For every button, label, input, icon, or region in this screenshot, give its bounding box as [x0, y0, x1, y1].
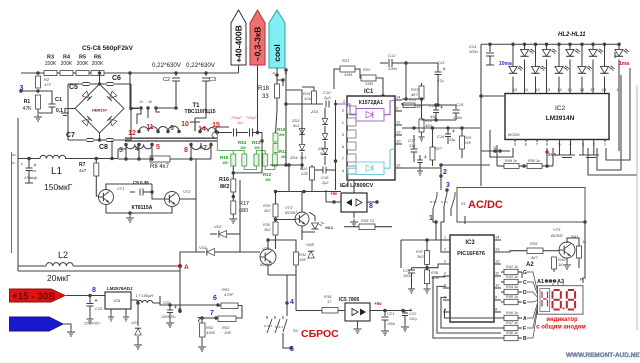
IC2 pin 12 [535, 87, 540, 92]
svg-text:C17: C17 [408, 138, 416, 143]
svg-text:C21: C21 [387, 311, 394, 316]
svg-text:R3: R3 [47, 55, 54, 61]
label 0,22*630V b [186, 62, 216, 69]
resistor R19 body [312, 91, 317, 104]
node bus-right [128, 71, 132, 75]
wire C14C15 top [402, 103, 456, 107]
svg-text:12: 12 [535, 87, 540, 92]
IC3 pin 2 [443, 248, 450, 253]
node 3 terminal [19, 85, 23, 93]
optocoupler diode purple [356, 109, 384, 122]
svg-text:2: 2 [444, 248, 446, 252]
label R14 green [238, 140, 247, 150]
capacitor C29 [417, 155, 427, 175]
wire mid-low rail [239, 180, 241, 234]
node J6 [277, 71, 288, 86]
svg-text:C1: C1 [55, 97, 62, 103]
wire bridge right [131, 108, 139, 110]
wire zeners [302, 108, 325, 170]
resistor R46 [501, 311, 527, 322]
LED HL2 [509, 43, 524, 94]
arrow +40-400V [231, 10, 246, 65]
svg-text:2М: 2М [279, 132, 285, 137]
svg-text:R50 1к: R50 1к [528, 159, 540, 163]
svg-text:10Су: 10Су [409, 317, 417, 321]
svg-text:HL1: HL1 [325, 225, 332, 230]
svg-text:ВС847: ВС847 [551, 233, 564, 238]
svg-text:/5: /5 [492, 146, 496, 150]
svg-text:R38: R38 [431, 271, 439, 275]
resistor R4 [60, 55, 73, 76]
wire bridge left input [65, 109, 75, 114]
ground blue arrow [63, 324, 75, 336]
ground IC2 a [555, 142, 575, 158]
wire ic1 bottom to hl1 [325, 190, 332, 230]
zener label ZD3 [317, 146, 326, 156]
svg-text:R44 1к: R44 1к [506, 285, 518, 289]
svg-text:R27: R27 [435, 147, 443, 151]
svg-text:1: 1 [429, 215, 433, 222]
svg-text:cool: cool [272, 44, 282, 61]
svg-text:12: 12 [396, 163, 401, 168]
svg-text:A2: A2 [526, 262, 534, 268]
svg-text:15: 15 [567, 87, 572, 92]
wire R28 [344, 218, 392, 230]
node 4 blue [285, 299, 294, 306]
svg-text:100n: 100n [453, 115, 463, 120]
svg-text:C12: C12 [388, 53, 396, 58]
label IC5 7805 [339, 297, 360, 303]
svg-text:R45 1к: R45 1к [506, 295, 518, 299]
ground R1C1 [34, 114, 42, 121]
wire bridge bottom [99, 133, 101, 140]
node 7 blue a [210, 310, 218, 320]
label IC4 [340, 183, 374, 189]
wire 9v rail [274, 190, 341, 196]
diode VD1 [196, 245, 228, 256]
capacitor C15 [453, 102, 465, 120]
svg-text:20мкГ: 20мкГ [47, 273, 71, 283]
zener stack right b [322, 134, 328, 140]
wire S1b to pin2 [441, 206, 446, 252]
svg-text:200K: 200K [61, 61, 73, 67]
svg-text:ТВС110ПЦ15: ТВС110ПЦ15 [185, 109, 216, 115]
svg-text:IC3: IC3 [465, 240, 475, 246]
IC1 pin 1 [342, 118, 356, 126]
svg-text:IC5 7805: IC5 7805 [339, 297, 360, 303]
capacitor C20 [161, 300, 177, 327]
resistor R21 [340, 58, 355, 77]
svg-text:47Y: 47Y [44, 82, 51, 87]
svg-text:4К7: 4К7 [411, 92, 419, 97]
wire S1 down [433, 209, 451, 222]
wire L1 top [18, 157, 40, 161]
ac input gnd stub [61, 113, 69, 116]
svg-text:100n: 100n [387, 322, 395, 326]
resistor R27 [430, 128, 443, 166]
node 7 blue b [197, 316, 204, 324]
svg-text:+5v: +5v [374, 301, 382, 306]
label 2V5 [545, 150, 556, 157]
pin 3 [119, 143, 128, 154]
svg-text:G: G [523, 270, 527, 276]
wire VT4-S area [287, 270, 296, 275]
svg-text:IC6: IC6 [114, 298, 121, 303]
IC1 pin 3 [342, 130, 356, 138]
pin 5 [150, 143, 160, 151]
node 5 blue [283, 333, 294, 353]
winding 14-15 [200, 128, 216, 132]
svg-text:+15 - 30В: +15 - 30В [12, 292, 55, 303]
svg-text:4: 4 [290, 299, 294, 306]
wire right rail a [618, 94, 620, 152]
svg-text:VD8: VD8 [306, 242, 315, 247]
label T1 [192, 103, 200, 109]
svg-text:R22: R22 [363, 67, 371, 72]
switch S2 [264, 316, 299, 333]
svg-text:33: 33 [262, 94, 269, 100]
top bus wire [481, 43, 619, 45]
svg-text:VD1: VD1 [199, 245, 207, 250]
svg-text:ZD4: ZD4 [289, 155, 298, 160]
label IC1 pin2 [343, 99, 346, 104]
svg-text:R1: R1 [24, 99, 31, 105]
wire display anode [583, 220, 587, 283]
resistor R10 green [273, 127, 286, 142]
bus routing stairs [433, 277, 501, 338]
wire R7-VT1 [96, 159, 98, 197]
ladder resistor c [254, 154, 259, 166]
resistor R52 [198, 318, 216, 351]
svg-text:A1: A1 [537, 279, 544, 285]
node R1 top [36, 89, 40, 93]
label 0,22*630V a [152, 62, 182, 69]
LED HL3 [520, 43, 535, 94]
svg-text:2μ2: 2μ2 [323, 95, 331, 100]
zener ZD1 [310, 109, 319, 114]
svg-text:2кV: 2кV [236, 121, 244, 125]
label ACDC [468, 199, 503, 211]
wire bus to C2C3 [170, 72, 230, 74]
ground R17 [229, 214, 237, 223]
svg-text:IC1: IC1 [364, 89, 374, 95]
svg-text:200K: 200K [92, 61, 104, 67]
resistor R38 [412, 264, 447, 293]
label A1 A3 [537, 279, 564, 285]
LED HL10 [600, 43, 615, 94]
capacitor C7 [66, 132, 94, 142]
node 3 blue [445, 182, 450, 192]
wire VT3 sect down [276, 232, 303, 249]
svg-text:J1: J1 [272, 71, 276, 75]
svg-text:10: 10 [396, 139, 401, 144]
svg-text:17: 17 [590, 87, 595, 92]
LED HL6 [555, 43, 570, 94]
resistor R45 [501, 295, 527, 306]
svg-text:СБРОС: СБРОС [301, 328, 339, 340]
svg-text:AC/DC: AC/DC [468, 199, 503, 211]
arrow gnd blue [10, 317, 64, 331]
cap square rim bottom [68, 138, 131, 142]
svg-text:R42 1к: R42 1к [506, 265, 518, 269]
resistor R17 [231, 192, 249, 214]
resistor R43 [501, 275, 527, 286]
svg-text:D: D [523, 290, 527, 296]
wire to S2 [268, 275, 287, 316]
wire mid column [284, 68, 323, 165]
label K1572DA1 [359, 100, 383, 106]
svg-text:6: 6 [213, 295, 217, 302]
svg-text:5v1: 5v1 [320, 151, 326, 156]
IC3 pin 11 [494, 271, 501, 277]
IC2 bpin 5 [558, 140, 561, 147]
ground IC4 [350, 212, 358, 226]
wire +15 in [66, 294, 105, 298]
seg bus collect [521, 272, 523, 278]
svg-text:12: 12 [128, 130, 136, 137]
IC2 bpin 2 [593, 140, 596, 147]
wire y128 rail [402, 126, 480, 130]
pin 7 [203, 143, 213, 152]
svg-text:100n: 100n [469, 49, 479, 54]
wire IC4 out [367, 201, 377, 203]
svg-text:R30: R30 [263, 223, 271, 227]
IC1 box [347, 96, 395, 180]
capacitor C2 [163, 71, 180, 108]
svg-text:J6: J6 [148, 100, 152, 104]
svg-text:R37: R37 [416, 250, 424, 254]
svg-text:R21: R21 [342, 58, 349, 63]
resistor R29 [263, 192, 278, 218]
resistor R20 [270, 163, 315, 191]
IC3 pin 13 [494, 247, 501, 253]
svg-text:7: 7 [210, 310, 214, 317]
arrow +15-30V [10, 289, 66, 303]
svg-text:1Ом: 1Ом [304, 96, 312, 101]
cap square rim left [67, 84, 69, 140]
resistor R30 [263, 217, 278, 235]
display outer box [538, 286, 584, 315]
IC6 pins [108, 309, 129, 321]
watermark bottom [566, 352, 640, 359]
svg-text:~0,3-3кВ: ~0,3-3кВ [253, 27, 263, 62]
winding 8-7 [191, 145, 211, 150]
svg-text:HER207: HER207 [92, 108, 108, 113]
label IC3 [465, 240, 475, 246]
capacitor C3 [195, 71, 216, 122]
cyan wires [348, 148, 395, 180]
svg-text:КТ8115А: КТ8115А [132, 205, 153, 211]
wire arrow3 down [276, 68, 278, 90]
svg-text:R18: R18 [258, 86, 270, 92]
svg-text:700μF: 700μF [231, 116, 242, 120]
switch S1 [430, 190, 467, 209]
svg-text:1К: 1К [558, 262, 563, 267]
IC2 pin 15 [567, 87, 572, 92]
svg-text:B: B [523, 336, 527, 342]
capacitor C14 [429, 103, 443, 120]
svg-text:3: 3 [444, 260, 446, 264]
resistor R50 [527, 159, 553, 169]
svg-text:С19: С19 [95, 307, 103, 311]
svg-text:LM3914N: LM3914N [546, 115, 575, 122]
capacitor C17 [408, 135, 418, 162]
IC2 pin 1 [616, 87, 619, 92]
resistor R25 [460, 128, 473, 158]
svg-text:MODE: MODE [508, 132, 520, 137]
svg-text:VT4: VT4 [262, 246, 270, 251]
svg-text:1ma: 1ma [619, 61, 629, 67]
purple wires [334, 100, 395, 115]
IC6 LM2576 [105, 286, 133, 309]
resistor R1 [23, 95, 41, 112]
label 10ma [499, 61, 512, 67]
IC2 pin 14 [557, 87, 562, 92]
svg-text:C5: C5 [69, 84, 78, 91]
svg-text:13: 13 [546, 87, 551, 92]
diode VD2 [210, 224, 240, 238]
IC2 bpin 1 [604, 140, 607, 147]
IC3 pin 7 [443, 308, 450, 313]
label indikator [546, 317, 578, 323]
IC1 pin 4 [342, 166, 356, 174]
IC2 pin 18 [602, 87, 607, 92]
svg-text:са: са [32, 169, 36, 173]
IC2 pin 16 [580, 87, 585, 92]
svg-text:8: 8 [184, 147, 188, 154]
pin 15 [212, 122, 220, 133]
IC3 pin 4 [443, 272, 450, 277]
winding 12-11 [139, 127, 158, 132]
IC1 left vertical [334, 100, 338, 190]
label HER207 [92, 108, 108, 113]
IC3 pin 14 [494, 235, 501, 241]
svg-text:33μ: 33μ [449, 138, 456, 142]
capacitor C13 [435, 60, 446, 84]
LED HL5 [542, 43, 557, 94]
wire L2-A [179, 266, 181, 271]
svg-text:33М: 33М [365, 81, 373, 86]
svg-text:2200Р35-/: 2200Р35-/ [83, 322, 102, 326]
svg-text:14: 14 [557, 87, 562, 92]
svg-text:13: 13 [396, 130, 401, 135]
node 8 blue b [92, 287, 96, 294]
ground emitter rail [126, 211, 134, 222]
svg-text:R46 1к: R46 1к [506, 311, 518, 315]
resistor R18 [258, 84, 280, 110]
svg-text:5v1: 5v1 [293, 123, 299, 128]
svg-text:4К7: 4К7 [531, 255, 539, 260]
IC1 pin 2 [342, 106, 356, 114]
bridge diode D2 [107, 91, 117, 101]
svg-text:A: A [184, 264, 189, 271]
label IC2 [555, 105, 566, 112]
svg-text:S2: S2 [293, 328, 299, 333]
wire VT5 circ [543, 238, 579, 272]
svg-text:10: 10 [513, 87, 518, 92]
svg-text:R8 4х7: R8 4х7 [150, 164, 170, 170]
svg-text:12: 12 [495, 259, 500, 264]
svg-text:2К2: 2К2 [263, 209, 271, 213]
resistor R6 [91, 55, 104, 76]
ladder resistor a [231, 154, 236, 166]
wire VT2-right [180, 159, 196, 199]
wire left rail [17, 118, 19, 271]
green ladder wires [217, 133, 275, 175]
wire C8 down [111, 140, 113, 159]
IC4 box [341, 193, 367, 212]
capacitor C22 [401, 309, 417, 332]
wire VD area [228, 210, 240, 252]
label s obshim [536, 324, 586, 331]
label PIC16F676 [457, 251, 485, 257]
svg-text:C8: C8 [99, 144, 108, 151]
winding 3-4-5 [126, 145, 152, 149]
wire pin1 rail [401, 240, 446, 268]
resistor R22 [361, 67, 376, 86]
IC3 pin 1 [443, 236, 450, 241]
svg-text:0,22*630V: 0,22*630V [152, 62, 182, 69]
zener stack left a [299, 129, 305, 135]
resistor R44 [501, 285, 527, 296]
transistor VT2 [165, 189, 192, 207]
digit 8 right [567, 290, 575, 310]
wire R8 junctions [124, 145, 154, 161]
svg-text:1000Р35-/: 1000Р35-/ [161, 315, 177, 319]
IC2 bpin 7 [536, 140, 539, 147]
LED HL4 [531, 43, 546, 94]
label IC1 [364, 89, 374, 95]
svg-text:R24: R24 [409, 98, 416, 102]
pin 10 [177, 121, 189, 133]
svg-text:10Е: 10Е [224, 330, 231, 335]
svg-text:700μF: 700μF [246, 116, 257, 120]
svg-text:3К3: 3К3 [417, 255, 424, 259]
wire top bus [21, 72, 239, 74]
svg-text:10: 10 [495, 283, 500, 288]
wire IC5 out [370, 309, 412, 313]
wire L1-R7 [65, 157, 114, 161]
svg-text:C6: C6 [112, 75, 121, 82]
IC3 pin 5 [443, 284, 450, 289]
svg-text:IC2: IC2 [555, 105, 566, 112]
pin 12 [128, 130, 141, 137]
svg-text:C15: C15 [456, 102, 464, 107]
resistor R26 [419, 97, 434, 141]
connector bracket [12, 152, 16, 253]
wire R7 top [96, 158, 118, 160]
label P [580, 277, 583, 282]
svg-text:1М: 1М [222, 160, 228, 165]
transistor VT4 [260, 246, 276, 267]
arrow cool [269, 10, 285, 68]
svg-text:18: 18 [602, 87, 607, 92]
svg-text:R47 1к: R47 1к [506, 321, 518, 325]
svg-text:47K: 47K [23, 106, 33, 112]
svg-text:3: 3 [119, 147, 123, 154]
svg-text:R16: R16 [219, 177, 229, 183]
svg-text:0,22*630V: 0,22*630V [186, 62, 216, 69]
pin 4 [135, 143, 141, 153]
bridge diode D1 [82, 91, 92, 101]
resistor R8 [118, 156, 196, 170]
wire VT4 wires [240, 238, 296, 275]
svg-text:F: F [523, 326, 526, 332]
wire 6 row [160, 296, 218, 311]
diode VD7 [131, 301, 142, 349]
svg-text:ZD1: ZD1 [310, 109, 319, 114]
wire upper rail mid [117, 149, 119, 158]
